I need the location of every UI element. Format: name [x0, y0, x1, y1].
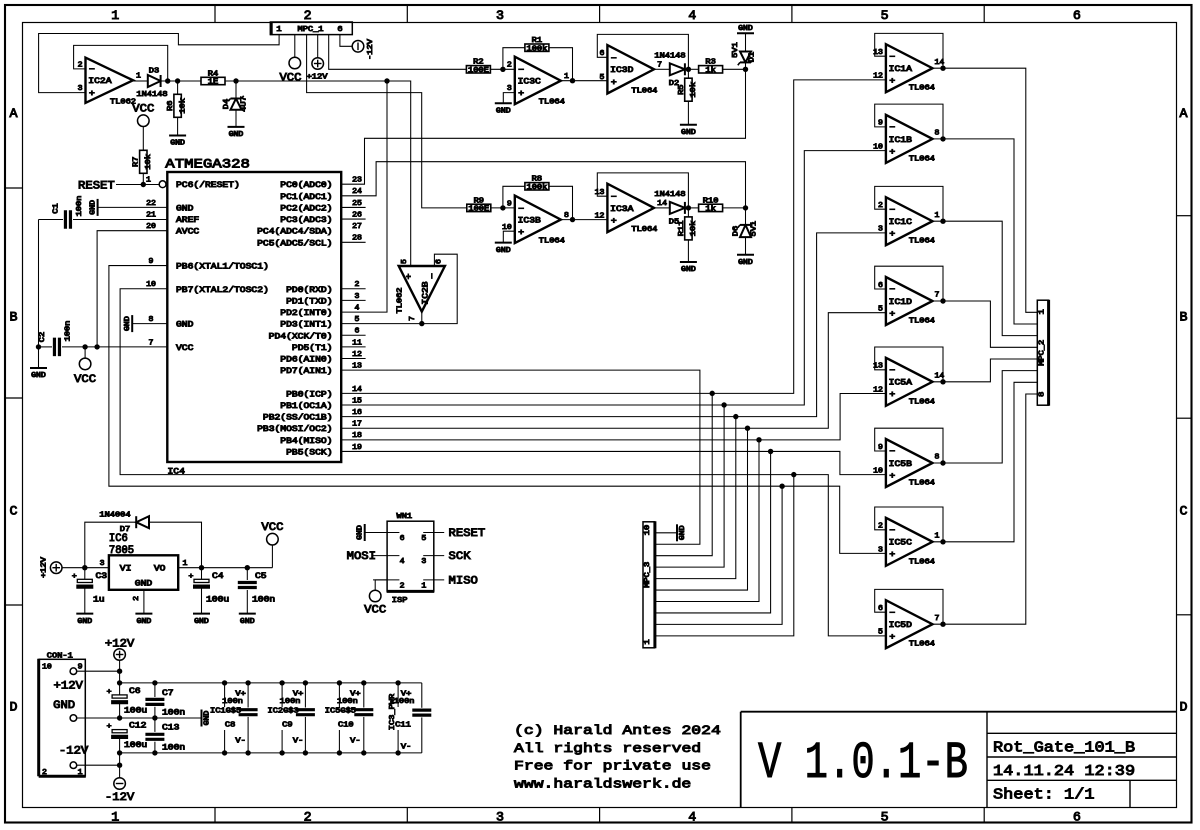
svg-text:PB3(MOSI/OC2): PB3(MOSI/OC2) — [257, 425, 332, 434]
op-amp IC3A — [595, 184, 668, 234]
svg-text:23: 23 — [352, 177, 362, 185]
svg-text:4: 4 — [688, 810, 696, 825]
svg-text:−: − — [518, 205, 524, 214]
svg-text:GND: GND — [229, 131, 244, 139]
svg-text:+: + — [405, 273, 414, 279]
wire D3 to R4 — [161, 78, 202, 83]
svg-text:D: D — [1180, 700, 1188, 715]
svg-text:4U7: 4U7 — [241, 96, 249, 112]
svg-text:1: 1 — [644, 639, 652, 644]
svg-text:PD7(AIN1): PD7(AIN1) — [280, 367, 332, 376]
svg-text:1N4148: 1N4148 — [654, 53, 685, 61]
svg-text:3: 3 — [878, 226, 883, 234]
svg-text:VCC: VCC — [364, 605, 386, 617]
svg-text:PC2(ADC2): PC2(ADC2) — [280, 204, 332, 213]
wire IC3A output — [654, 207, 670, 209]
svg-text:6: 6 — [400, 535, 405, 543]
svg-text:GND: GND — [170, 140, 185, 148]
capacitor C4 — [189, 568, 230, 614]
svg-text:5: 5 — [878, 629, 883, 637]
svg-text:B: B — [10, 310, 18, 325]
svg-text:IC5C: IC5C — [889, 539, 912, 548]
net label RESET at WN1 — [449, 528, 486, 540]
resistor R9 — [467, 197, 491, 213]
ground right of GND row — [202, 710, 212, 727]
svg-text:6: 6 — [337, 26, 342, 34]
ground at WN1 pin6 — [357, 524, 365, 541]
svg-text:2: 2 — [42, 769, 47, 777]
svg-text:GND: GND — [176, 204, 194, 213]
svg-text:1u: 1u — [93, 596, 105, 605]
net label MISO — [449, 576, 479, 588]
svg-text:8: 8 — [564, 212, 569, 220]
svg-text:7: 7 — [149, 339, 154, 347]
wire IC5D feedback — [875, 589, 946, 627]
svg-text:5: 5 — [401, 259, 409, 264]
svg-text:C5: C5 — [255, 572, 267, 581]
svg-text:VO: VO — [154, 564, 166, 573]
svg-text:TL064: TL064 — [909, 155, 935, 163]
svg-text:+: + — [889, 310, 895, 319]
svg-text:TL062: TL062 — [397, 288, 405, 314]
svg-text:PD1(TXD): PD1(TXD) — [286, 297, 332, 306]
svg-text:1: 1 — [276, 26, 281, 34]
svg-text:GND: GND — [194, 618, 209, 626]
svg-text:+12V: +12V — [307, 74, 329, 82]
svg-text:TL064: TL064 — [539, 238, 565, 246]
svg-text:10: 10 — [644, 525, 652, 535]
svg-text:−: − — [889, 53, 895, 62]
svg-text:1N4004: 1N4004 — [99, 512, 130, 520]
svg-text:14: 14 — [657, 200, 667, 208]
svg-text:SCK: SCK — [449, 551, 471, 563]
svg-text:C7: C7 — [162, 689, 174, 698]
svg-text:14.11.24 12:39: 14.11.24 12:39 — [993, 763, 1135, 780]
svg-text:27: 27 — [352, 223, 362, 231]
svg-text:MISO: MISO — [449, 576, 479, 588]
svg-text:GND: GND — [738, 25, 753, 33]
svg-text:100n: 100n — [76, 196, 84, 217]
wire IC3A feedback — [597, 173, 688, 208]
svg-text:V-: V- — [293, 737, 303, 745]
ground below R5 — [680, 125, 697, 137]
op-amp IC1D — [878, 277, 939, 326]
svg-text:www.haraldswerk.de: www.haraldswerk.de — [514, 776, 691, 791]
svg-text:B: B — [1180, 310, 1188, 325]
power VCC at IC6 output — [261, 522, 283, 568]
svg-text:9: 9 — [78, 663, 83, 671]
power -12V at MPC_1 pin6 — [340, 35, 375, 60]
svg-text:7805: 7805 — [109, 545, 134, 557]
svg-text:1k: 1k — [705, 206, 715, 214]
wire IC5B output to MPC_2 — [933, 371, 1038, 463]
svg-text:PD6(AIN0): PD6(AIN0) — [280, 356, 332, 365]
connector WN1 ISP — [365, 513, 445, 605]
ground at IC3C+ — [495, 93, 515, 116]
svg-text:3: 3 — [355, 293, 360, 301]
svg-text:15: 15 — [352, 397, 362, 405]
svg-text:100E: 100E — [468, 67, 489, 75]
wire IC5B feedback — [875, 428, 946, 465]
svg-text:PD3(INT1): PD3(INT1) — [280, 321, 332, 330]
svg-text:12: 12 — [595, 212, 605, 220]
op-amp IC2A — [78, 58, 142, 107]
svg-text:2: 2 — [78, 61, 83, 69]
svg-text:+: + — [889, 230, 895, 239]
svg-text:6: 6 — [436, 259, 444, 264]
svg-text:IC5A: IC5A — [889, 379, 912, 388]
net label RESET — [78, 181, 115, 193]
svg-text:+: + — [518, 90, 524, 99]
svg-text:R6: R6 — [167, 101, 175, 111]
svg-text:3: 3 — [507, 85, 512, 93]
svg-text:+: + — [889, 77, 895, 86]
svg-text:PD5(T1): PD5(T1) — [292, 344, 333, 353]
svg-text:100u: 100u — [206, 596, 229, 605]
svg-text:+12V: +12V — [105, 639, 135, 651]
svg-text:1: 1 — [78, 769, 84, 777]
svg-text:C13: C13 — [162, 724, 180, 733]
svg-text:PB6(XTAL1/TOSC1): PB6(XTAL1/TOSC1) — [176, 263, 269, 272]
wire IC1B output to MPC_2 — [933, 139, 1038, 324]
svg-text:+: + — [611, 217, 617, 226]
svg-text:IC1B: IC1B — [889, 136, 912, 145]
svg-text:GND: GND — [357, 525, 365, 540]
diode D2 — [654, 53, 685, 88]
svg-text:−: − — [89, 66, 95, 75]
svg-text:C6: C6 — [129, 687, 141, 696]
svg-text:1: 1 — [935, 532, 941, 540]
wire PD7 pin13 to MPC_3 pin9 — [341, 370, 700, 544]
svg-text:V-: V- — [350, 737, 360, 745]
svg-text:5: 5 — [878, 306, 883, 314]
svg-text:10k: 10k — [179, 98, 187, 114]
svg-text:−: − — [889, 609, 895, 618]
svg-text:GND: GND — [681, 266, 696, 274]
svg-text:+: + — [518, 229, 524, 238]
power pins IC3_PWR — [389, 680, 414, 755]
svg-text:IC1G$5: IC1G$5 — [210, 708, 241, 716]
svg-text:3: 3 — [496, 8, 504, 23]
wire IC5A feedback — [875, 347, 946, 384]
svg-text:3: 3 — [496, 810, 504, 825]
capacitor C2 — [36, 321, 168, 357]
svg-text:C: C — [1180, 504, 1188, 519]
svg-text:VCC: VCC — [132, 104, 154, 116]
wire MPC_1 pin5 to R2 — [329, 35, 467, 70]
wire IC1A feedback — [875, 33, 946, 71]
svg-text:AREF: AREF — [176, 216, 199, 225]
power VCC at MPC_1 pin2 — [279, 35, 301, 85]
svg-text:100n: 100n — [280, 698, 301, 706]
svg-text:WN1: WN1 — [397, 513, 413, 521]
svg-text:D1: D1 — [749, 52, 757, 62]
wire +12V rail column — [77, 660, 123, 695]
svg-text:2: 2 — [133, 596, 141, 601]
op-amp IC1B — [873, 115, 939, 163]
svg-text:1: 1 — [146, 177, 152, 185]
capacitor C5 — [238, 568, 276, 614]
diode D3 — [136, 68, 167, 99]
connector CON-1 — [39, 653, 89, 778]
svg-text:1: 1 — [136, 73, 142, 81]
svg-text:R11: R11 — [678, 221, 686, 237]
svg-text:MOSI: MOSI — [347, 551, 376, 563]
op-amp IC1A — [873, 44, 945, 92]
svg-text:CON-1: CON-1 — [47, 653, 73, 661]
capacitor C13 — [145, 718, 185, 753]
wire IC2A feedback — [74, 45, 171, 83]
ground below R11 — [680, 262, 697, 274]
svg-text:V 1.0.1-B: V 1.0.1-B — [758, 734, 968, 793]
wire IC3D feedback — [597, 34, 688, 69]
resistor R10 — [699, 197, 723, 213]
wire GND row — [77, 715, 202, 720]
svg-text:28: 28 — [352, 235, 362, 243]
ground below D4 — [228, 127, 245, 139]
svg-text:TL064: TL064 — [539, 99, 565, 107]
svg-text:−: − — [611, 193, 617, 202]
svg-text:+12V: +12V — [54, 681, 84, 693]
op-amp IC5A — [873, 358, 945, 407]
wire D1 node to PC0 pin23 — [341, 69, 745, 184]
svg-text:4: 4 — [400, 558, 406, 566]
power -12V below — [105, 778, 135, 804]
svg-text:−: − — [889, 366, 895, 375]
svg-text:−: − — [889, 206, 895, 215]
wire V- rail — [120, 752, 422, 754]
IC IC4 ATMEGA328 — [146, 156, 366, 476]
wire IC2A node to IC2B+ and PD2 — [341, 81, 411, 312]
svg-text:−: − — [518, 66, 524, 75]
wire IC2A output — [133, 80, 148, 82]
svg-text:1: 1 — [935, 212, 941, 220]
svg-text:11: 11 — [352, 339, 362, 347]
svg-text:PB5(SCK): PB5(SCK) — [286, 448, 332, 457]
svg-text:+: + — [107, 688, 112, 696]
svg-text:8: 8 — [935, 130, 940, 138]
svg-text:GND: GND — [137, 618, 152, 626]
svg-text:100n: 100n — [394, 698, 415, 706]
svg-text:22: 22 — [146, 200, 156, 208]
svg-text:C8: C8 — [225, 722, 235, 730]
resistor R11 — [678, 208, 698, 262]
svg-text:21: 21 — [146, 211, 156, 219]
svg-text:C4: C4 — [212, 572, 224, 581]
svg-text:100n: 100n — [252, 596, 275, 605]
svg-text:+: + — [889, 148, 895, 157]
svg-text:D4: D4 — [223, 99, 231, 109]
svg-text:PC5(ADC5/SCL): PC5(ADC5/SCL) — [257, 239, 332, 248]
svg-text:100n: 100n — [222, 698, 243, 706]
svg-text:+12V: +12V — [41, 556, 49, 578]
svg-text:16: 16 — [352, 409, 362, 417]
svg-text:5: 5 — [881, 8, 889, 23]
ground at pin22 — [89, 199, 167, 216]
wire IC5A output to MPC_2 — [933, 359, 1038, 382]
svg-text:1N4148: 1N4148 — [654, 191, 685, 199]
wire IC2B output to PD3 — [341, 312, 422, 324]
svg-text:1k: 1k — [705, 67, 715, 75]
resistor R4 — [201, 70, 225, 86]
svg-text:100k: 100k — [527, 45, 548, 53]
svg-text:10: 10 — [42, 663, 52, 671]
wire PB6 to IC5C+ and MPC_3 pin2 — [109, 266, 886, 625]
svg-text:3: 3 — [78, 85, 83, 93]
svg-text:All rights reserved: All rights reserved — [514, 741, 701, 756]
svg-text:18: 18 — [352, 432, 362, 440]
svg-text:100E: 100E — [468, 206, 489, 214]
power VCC at pin7 — [74, 347, 96, 386]
svg-text:TL064: TL064 — [909, 480, 935, 488]
capacitor C9 — [282, 680, 315, 755]
wire IC5D output to MPC_2 — [933, 394, 1038, 624]
svg-text:5: 5 — [421, 535, 426, 543]
wire R2 to IC3C- — [490, 67, 514, 72]
wire IC3D output — [654, 68, 670, 70]
svg-text:IC1D: IC1D — [889, 298, 912, 307]
svg-text:2: 2 — [304, 8, 312, 23]
resistor R6 — [167, 81, 187, 136]
svg-text:PB7(XTAL2/TOSC2): PB7(XTAL2/TOSC2) — [176, 286, 269, 295]
svg-text:PB1(OC1A): PB1(OC1A) — [280, 402, 332, 411]
op-amp IC3B — [502, 196, 569, 246]
wire IC1B feedback — [875, 104, 946, 141]
svg-text:PD4(XCK/T0): PD4(XCK/T0) — [269, 332, 333, 341]
svg-text:IC3B: IC3B — [518, 217, 541, 226]
svg-text:14: 14 — [352, 386, 362, 394]
svg-text:6: 6 — [355, 328, 360, 336]
svg-text:PD0(RXD): PD0(RXD) — [286, 286, 332, 295]
svg-text:−: − — [889, 448, 895, 457]
wire IC3C output to IC3D+ — [561, 78, 608, 83]
svg-text:7: 7 — [409, 316, 417, 321]
svg-text:R5: R5 — [678, 84, 686, 94]
svg-text:−: − — [611, 55, 617, 64]
svg-text:TL064: TL064 — [909, 318, 935, 326]
svg-text:25: 25 — [352, 200, 362, 208]
svg-text:1N4148: 1N4148 — [136, 91, 167, 99]
zener diode D6 — [733, 208, 759, 255]
ground at IC3B+ — [495, 231, 515, 255]
svg-text:GND: GND — [176, 321, 194, 330]
svg-text:TL064: TL064 — [631, 226, 657, 234]
svg-text:3: 3 — [421, 558, 426, 566]
svg-text:GND: GND — [496, 247, 511, 255]
svg-text:GND: GND — [135, 580, 153, 589]
svg-text:IC6: IC6 — [109, 533, 128, 545]
svg-text:C: C — [10, 504, 18, 519]
capacitor C10 — [338, 680, 373, 755]
connector MPC_3 — [643, 521, 655, 648]
power +12V at MPC_1 pin4 — [307, 35, 329, 82]
resistor R7 — [133, 127, 153, 185]
svg-text:+: + — [889, 633, 895, 642]
wire D6 node to PC1 pin24 — [341, 162, 745, 208]
svg-text:3: 3 — [100, 560, 105, 568]
svg-text:100k: 100k — [527, 184, 548, 192]
svg-text:3: 3 — [878, 546, 883, 554]
wire IC3B output to IC3A+ — [561, 217, 608, 222]
svg-text:TL064: TL064 — [909, 398, 935, 406]
svg-text:IC3A: IC3A — [610, 205, 633, 214]
wire PB7 to IC5D+ and MPC_3 pin1 — [120, 289, 886, 636]
power pins IC2G$3 — [268, 680, 304, 755]
svg-text:+: + — [107, 723, 112, 731]
wire R4 to node — [225, 78, 390, 83]
op-amp IC3D — [600, 45, 663, 95]
wire -12V pin — [77, 765, 120, 778]
svg-text:TL064: TL064 — [909, 238, 935, 246]
svg-text:IC2A: IC2A — [88, 77, 111, 86]
svg-text:1: 1 — [183, 560, 189, 568]
svg-text:4: 4 — [688, 8, 696, 23]
wire AVCC pin20 — [94, 231, 167, 350]
svg-text:100u: 100u — [124, 741, 147, 750]
svg-text:9: 9 — [149, 258, 154, 266]
svg-text:2: 2 — [304, 810, 312, 825]
resistor R2 — [466, 59, 490, 75]
svg-text:+: + — [611, 78, 617, 87]
svg-text:PD2(INT0): PD2(INT0) — [280, 309, 332, 318]
wire IC1C output to MPC_2 — [933, 221, 1038, 335]
svg-text:−: − — [428, 273, 437, 279]
wire PB3 to IC1D+ and MPC_3 pin5 — [341, 313, 886, 590]
ground above D1 — [737, 25, 754, 34]
wire RESET to pin1 — [116, 182, 159, 187]
svg-text:12: 12 — [352, 351, 362, 359]
svg-text:+: + — [889, 472, 895, 481]
svg-text:+: + — [889, 551, 895, 560]
op-amp IC5D — [878, 600, 939, 649]
capacitor C1 — [39, 196, 168, 229]
wire R10 to node — [723, 205, 749, 210]
op-amp IC1C — [878, 197, 940, 246]
ground at pin8 — [124, 315, 167, 332]
svg-text:10k: 10k — [145, 154, 153, 170]
svg-text:VCC: VCC — [261, 522, 283, 534]
svg-text:R10: R10 — [703, 197, 719, 205]
svg-text:Free for private use: Free for private use — [514, 759, 711, 774]
svg-text:VCC: VCC — [74, 374, 96, 386]
resistor R1 feedback — [503, 37, 573, 81]
ground below IC6 — [135, 614, 152, 626]
wire PB5 to IC5B+ and MPC_3 pin3 — [341, 449, 886, 613]
svg-text:D3: D3 — [149, 68, 159, 76]
zener diode D4 — [223, 81, 249, 127]
svg-text:VI: VI — [120, 564, 132, 573]
svg-text:IC3C: IC3C — [518, 78, 541, 87]
wire R9 to IC3B- — [491, 205, 515, 210]
svg-text:13: 13 — [352, 363, 362, 371]
svg-text:R9: R9 — [474, 197, 484, 205]
svg-text:6: 6 — [1073, 8, 1081, 23]
capacitor C12 — [107, 722, 148, 768]
svg-text:17: 17 — [352, 421, 362, 429]
ground below C3 — [76, 614, 93, 626]
svg-text:12: 12 — [873, 73, 883, 81]
svg-text:PC3(ADC3): PC3(ADC3) — [280, 216, 332, 225]
svg-text:GND: GND — [53, 700, 75, 712]
svg-text:2: 2 — [507, 62, 512, 70]
wire V+ rail — [120, 682, 422, 684]
svg-text:13: 13 — [595, 189, 605, 197]
net label SCK — [449, 551, 471, 563]
wire IC5C output to MPC_2 — [933, 382, 1038, 542]
svg-text:+: + — [189, 573, 194, 581]
svg-text:A: A — [1180, 106, 1188, 121]
svg-text:10k: 10k — [690, 82, 698, 98]
